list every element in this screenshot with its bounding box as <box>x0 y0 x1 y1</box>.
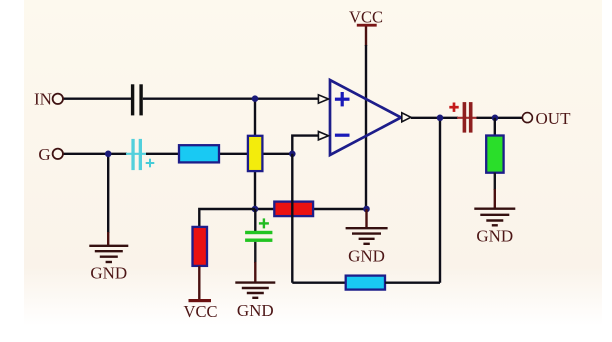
wire to GND2 <box>365 209 367 228</box>
svg-text:G: G <box>38 145 50 164</box>
wire inverting node to op-amp inverting input <box>292 136 319 154</box>
svg-text:VCC: VCC <box>184 302 218 321</box>
junction op-amp ground node <box>363 206 370 213</box>
svg-text:IN: IN <box>34 90 52 109</box>
wire node A to R4 <box>199 209 255 228</box>
svg-text:OUT: OUT <box>536 109 572 128</box>
junction output node <box>437 115 444 122</box>
capacitor C3 <box>245 231 272 242</box>
capacitor C2 <box>131 139 142 170</box>
wire G terminal to C2 <box>63 153 128 155</box>
capacitor C4 lead tint <box>457 117 478 119</box>
wire IN node down to R2 and node A <box>254 99 256 209</box>
wire R6 to GND4 <box>494 173 496 190</box>
wire inverting node down to feedback rail <box>291 154 293 283</box>
ground GND4 <box>474 209 515 226</box>
input arrow non-inverting <box>318 95 328 103</box>
wire R4 to VCC2 <box>198 266 200 300</box>
resistor R6 <box>486 136 503 173</box>
output arrow <box>402 113 411 122</box>
resistor R3 <box>274 202 313 217</box>
svg-text:GND: GND <box>237 301 274 320</box>
wire G node down to GND1 <box>107 154 109 233</box>
wire R5 to output node <box>385 282 440 284</box>
polarity mark C3 + <box>259 218 269 228</box>
wire R1 to inverting node <box>219 153 292 155</box>
terminal G <box>53 149 63 159</box>
junction G node <box>105 151 112 158</box>
junction IN node <box>252 95 259 102</box>
polarity mark C4 + <box>449 103 458 112</box>
wire C4 to OUT terminal <box>477 117 523 119</box>
svg-text:GND: GND <box>348 247 385 266</box>
wire node A to op-amp ground node <box>255 208 367 210</box>
resistor R2 <box>248 136 263 171</box>
ground GND1 <box>89 246 128 262</box>
terminal IN <box>53 94 63 104</box>
ground GND3 <box>235 283 275 298</box>
polarity mark C2 + <box>146 159 155 168</box>
wire OUT node to R6 <box>494 118 496 136</box>
capacitor C2 lead tint <box>126 153 147 155</box>
capacitor C1 <box>131 84 143 115</box>
wire output node down to feedback rail <box>439 118 441 283</box>
power VCC2 bar <box>189 299 212 302</box>
junction node A <box>252 206 259 213</box>
input arrow inverting <box>318 132 328 140</box>
wire C1 to op-amp non-inverting input <box>143 97 319 99</box>
wire IN terminal to C1 <box>63 97 132 99</box>
junction OUT node <box>492 115 499 122</box>
svg-text:GND: GND <box>476 227 513 246</box>
power VCC1 bar <box>357 24 377 27</box>
resistor R5 <box>346 276 385 290</box>
junction inverting node <box>289 151 296 158</box>
wire feedback rail left segment <box>292 282 346 284</box>
resistor R1 <box>179 145 219 162</box>
op-amp U1 <box>330 80 401 155</box>
wire node A down to C3 <box>254 209 256 232</box>
svg-text:VCC: VCC <box>349 8 383 27</box>
op-amp inverting - mark <box>335 134 350 137</box>
op-amp non-inverting + mark <box>335 92 350 106</box>
capacitor C4 <box>463 102 473 133</box>
wire op-amp output to C4 <box>411 117 458 119</box>
resistor R4 <box>193 227 208 266</box>
wire C3 to GND3 <box>254 242 256 263</box>
ground GND2 <box>346 228 388 244</box>
svg-text:GND: GND <box>90 264 127 283</box>
terminal OUT <box>522 113 532 123</box>
wire VCC1 to op-amp rail <box>365 27 367 47</box>
wire C2 to R1 <box>146 153 179 155</box>
